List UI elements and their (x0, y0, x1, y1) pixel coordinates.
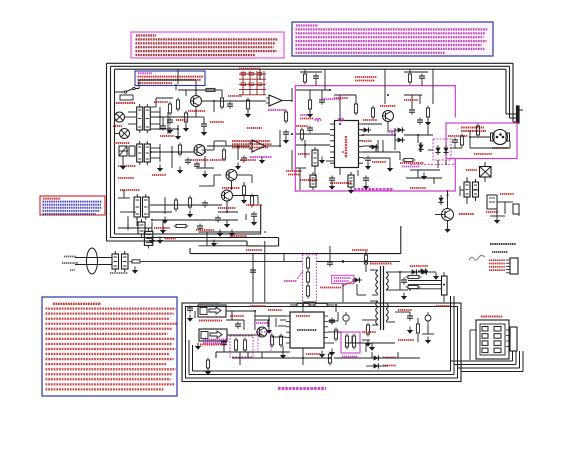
U3 right pin 15 (359, 157, 364, 159)
wire: rectifier wiring (395, 271, 409, 273)
capacitor C54 (329, 319, 335, 321)
wire: tn mesh d (363, 157, 390, 159)
wire: ul mesh m (233, 195, 259, 197)
resistor R34 (426, 108, 429, 117)
wire: bus drop b (384, 69, 386, 104)
U4 left pin 1 (286, 315, 290, 317)
text: ir emitter label (320, 287, 341, 289)
text: warning line 4 (136, 46, 274, 48)
ground gx2 (217, 233, 223, 237)
wire: pointer to D42 (342, 281, 354, 286)
wire: ul long run1 (151, 219, 238, 221)
capacitor C51 (187, 307, 193, 309)
text: diode labels (410, 265, 428, 267)
text: J3 label below (199, 320, 222, 322)
resistor Rt1 (308, 100, 311, 109)
text: blue note line4 (138, 82, 173, 84)
text: magenta pin label (322, 98, 342, 100)
text: principle line 13 (46, 363, 167, 365)
wire: lower frame inner bottom 3 (189, 374, 454, 376)
ground gl6 (369, 347, 375, 351)
wire mesh 3 (151, 204, 222, 206)
balun T14 (122, 254, 129, 269)
resistor Rl2 (416, 324, 419, 333)
text: J3 label above (199, 302, 220, 304)
text: agc note line1 (232, 140, 270, 142)
ground gd6 (160, 230, 166, 234)
text: warning line 5 (136, 50, 277, 52)
resistor R23 (222, 150, 225, 159)
capacitor Ctt1 (313, 75, 319, 77)
ground g14 (425, 122, 431, 126)
resistor Rmid1 (364, 255, 367, 264)
ground g9 (235, 166, 241, 170)
resistor R32 (371, 108, 374, 117)
text: mt lbl1 (474, 153, 492, 155)
text: ul lbl2 (176, 119, 188, 121)
text: motor name (492, 147, 508, 149)
wire: t1 links (128, 111, 136, 113)
resistor Rt2 (354, 104, 357, 113)
wire: feeds into FB1 (408, 280, 442, 282)
wire: top bus line 1 (outer frame top) (107, 62, 514, 64)
wire: lo mesh h (427, 326, 429, 334)
wire: tn mesh h (299, 168, 301, 190)
text: agc note line3 (232, 146, 268, 148)
text: lo lbl1 (230, 315, 244, 317)
resistor Rtt2 (408, 74, 411, 82)
capacitor Cm1 (452, 139, 458, 141)
box: tuner control section (magenta) (295, 86, 455, 191)
U3 right pin 13 (359, 145, 364, 147)
U3 left pin 4 (330, 140, 335, 142)
capacitor Cu1 (251, 213, 257, 215)
capacitor Ct1 (319, 99, 325, 101)
wire: magenta dashed link (410, 163, 455, 165)
ferrite antenna T5 (134, 197, 141, 217)
wire: tn mesh c (363, 145, 376, 147)
capacitor C21 (227, 103, 233, 105)
wire: right bus drop 2 (509, 66, 511, 118)
wire: link x284 (283, 254, 285, 262)
text: description line 6 (296, 44, 482, 46)
wire: lo long 2 (216, 351, 290, 353)
wire: u4 top wiring (290, 304, 297, 306)
transistor Q4 (222, 190, 233, 201)
text: principle line 8 (46, 338, 175, 340)
U4 right pin 12 (324, 342, 328, 344)
wire: lo mesh g (395, 311, 410, 313)
wire: d46 wiring (366, 357, 371, 359)
wire: lo mesh f (215, 352, 217, 358)
text: red note line 4 (43, 207, 103, 209)
wire: mt mesh (450, 147, 462, 149)
text: principle line 5 (46, 323, 177, 325)
ground gt4 (348, 190, 354, 194)
wire: bottom run (127, 216, 129, 230)
text: description title (296, 24, 318, 26)
resistor R24 (284, 112, 287, 121)
wire: j5 wiring (470, 329, 476, 331)
wire: osc pointer (297, 271, 303, 279)
resistor R31 (300, 130, 303, 139)
wire: motor wiring (470, 136, 490, 138)
resistor Rtt1 (303, 74, 306, 82)
wire: ul mesh j (214, 174, 221, 176)
text: J4 label below (200, 344, 226, 346)
inductor L2 (132, 260, 140, 263)
dashed box 2 (magenta) (230, 336, 253, 357)
wire: bus stub right 3 (454, 364, 516, 366)
capacitor C22 (241, 157, 247, 159)
jack J3 (line out) (198, 305, 226, 317)
resistor R12 (184, 113, 187, 122)
IF transformer T3 (137, 144, 143, 162)
text: U3 part number (red, vertical) (345, 136, 347, 158)
text: tn lbl4 (298, 153, 310, 155)
ground g1 (167, 130, 173, 134)
ground g18 (132, 270, 138, 274)
wire: left frame vertical 2 (110, 66, 112, 237)
wire: opamp2 wiring (207, 145, 250, 147)
ground g23 (401, 296, 407, 300)
text: tn lbl8 (362, 140, 372, 142)
wire: T15 terminals (370, 269, 378, 271)
wire: lo vert extra (215, 352, 217, 358)
text: ul lbl5 (152, 174, 166, 176)
text: varactor label (448, 135, 468, 137)
wire: top bus line 3 (115, 68, 507, 70)
resistor Rd1 (168, 104, 171, 113)
text: U3 pin labels left (300, 114, 312, 116)
wire: tuner right mesh (404, 134, 433, 136)
U4 right pin 10 (324, 331, 328, 333)
wire: lower frame inner bottom 4 (193, 370, 451, 372)
text: lamp label (113, 125, 122, 127)
ground g5 (162, 220, 168, 224)
regulator caps (345, 336, 348, 347)
resistor Rd4 (176, 224, 186, 227)
wire: bus drop e (259, 69, 261, 80)
wire: left frame vertical 1 (106, 63, 108, 241)
text: principle line 17 (46, 383, 175, 385)
ground g21 (329, 352, 335, 356)
capacitor Cd5 (201, 123, 207, 125)
text: red note line 6 (43, 213, 97, 215)
text: red label band (230, 235, 247, 237)
capacitor Cl4 (221, 341, 227, 343)
note box: description text (navy border) (292, 22, 493, 56)
diode D47 (remote) (371, 363, 381, 368)
text: tn lbl7 (296, 125, 308, 127)
capacitor C23 (283, 131, 289, 133)
capacitor C12 (185, 159, 191, 161)
note box: warning text (magenta border) (131, 32, 284, 58)
U3 right pin 12 (359, 140, 364, 142)
text: Q6 label (459, 213, 474, 215)
text: agc note line2 (232, 143, 272, 145)
inductor L6 (408, 275, 419, 278)
text: principle line 14 (46, 368, 176, 370)
wire: bus stub right 4 (451, 360, 513, 362)
note box: red-bordered note (left mid) (40, 196, 105, 215)
remote receiver box J5 (476, 320, 509, 359)
wire: frame bottom 3 (107, 240, 248, 242)
text: T3 label (118, 165, 136, 167)
electrolytic C52 (234, 340, 237, 350)
IF can crossing frame T16 (144, 231, 152, 245)
transistor Q3 (226, 170, 237, 181)
text: ul lbl4 (210, 121, 224, 123)
text: principle line 15 (46, 373, 173, 375)
electrolytic C53 (243, 340, 246, 350)
IF transformer T10 (348, 175, 354, 187)
U3 left pin 1 (330, 123, 335, 125)
text: var cap label (114, 142, 130, 144)
text: hand mark (469, 256, 485, 261)
dashed box 3 (magenta) (258, 332, 271, 352)
text: Q4 label (218, 207, 236, 209)
resistor R13 (206, 88, 215, 91)
wire: lo long 1 (255, 315, 286, 317)
wire: ul mesh h (119, 150, 128, 152)
jack J4 (mic) (199, 329, 227, 341)
ground gd3 (120, 166, 126, 170)
resistor R33 (404, 158, 413, 161)
wire: link x253 (252, 254, 254, 302)
wire: ul mesh i (150, 204, 168, 206)
wire: top bus line 2 (111, 65, 510, 67)
variable capacitor C-var1 (119, 146, 127, 156)
diode D41 (438, 195, 443, 205)
oscillator dashed box (magenta) (302, 254, 304, 302)
text: tuner box label 调谐机芯控制电路 (354, 188, 393, 191)
U3 left pin 3 (330, 134, 335, 136)
resistor R52 (279, 336, 282, 345)
text: misc red c (288, 174, 300, 176)
wire: rc mesh a (496, 209, 498, 216)
ground g16 (329, 186, 335, 190)
diode D34 (369, 144, 379, 149)
wire: ul mesh n (123, 190, 125, 198)
text: antenna label (64, 256, 76, 258)
ground gd1 (175, 136, 181, 140)
IF transformer T8 (312, 150, 318, 166)
diode D31 (361, 127, 371, 132)
wire: mid verticals (279, 130, 281, 146)
text: rc lbl1 (500, 193, 514, 195)
wire: frame bottom 5 (190, 253, 401, 255)
wire: right col mesh (484, 162, 486, 166)
wire: lo mesh a (231, 311, 233, 320)
remote rx inner frame (480, 324, 505, 355)
text: U4 red label (296, 315, 310, 317)
text: red note line 3 (43, 204, 102, 206)
oscillator coil L5 (306, 286, 309, 296)
diode D44 (409, 269, 419, 274)
text: tn lbl1 (334, 97, 348, 99)
resistor R16 (188, 198, 191, 207)
diode D32 (395, 127, 405, 132)
text: description line 7 (296, 48, 485, 50)
diode D45 (419, 269, 429, 274)
diode D46 (remote) (371, 355, 381, 360)
ground gx1 (157, 240, 163, 244)
U3 right pin 11 (359, 134, 364, 136)
text: red note line 2 (43, 201, 103, 203)
U3 right pin 16 (359, 162, 364, 164)
wire: bus ends into connector (506, 113, 516, 115)
wire: ul mesh e (202, 149, 214, 151)
varactor box (dashed magenta) (433, 139, 451, 160)
ground gm1 (494, 220, 500, 224)
resistor Rm1 (460, 136, 463, 145)
text: J2 title (492, 251, 508, 253)
text: lo lbl4 (306, 353, 320, 355)
text: lo lbl3 (268, 309, 282, 311)
text: description line 4 (296, 36, 484, 38)
wire: fb1 to bus (443, 295, 445, 302)
wire: bus drop a (324, 69, 326, 90)
ground gd2 (202, 174, 208, 178)
IC U3 (tuner controller) (335, 121, 359, 168)
resistor network RN1 (red ladder) (239, 73, 266, 75)
text: warning line 6 (136, 54, 256, 56)
unit box B1 (LED/sensor) (487, 195, 497, 209)
wire: frame bottom 4 (247, 245, 279, 247)
wire: tt wiring2 (404, 71, 428, 73)
ground g19 (187, 318, 193, 322)
U4 right pin 8 (324, 320, 328, 322)
text: lo lbl6 (398, 339, 414, 341)
text: warning line 2 (136, 38, 278, 40)
ground g22 (365, 343, 371, 347)
text: principle line 10 (46, 348, 176, 350)
op-amp U2A (269, 95, 282, 106)
note box: small magenta box (osc note) (332, 275, 354, 283)
transformer T15 (power) core (380, 266, 382, 330)
text: principle line 7 (46, 333, 168, 335)
wire: frame bottom 1 (115, 233, 261, 235)
text: tn lbl6 (410, 187, 426, 189)
oscillator coil L4 (306, 272, 309, 282)
wire: bus stub right 1 (461, 371, 523, 373)
ground gt2 (387, 168, 393, 172)
text: label right of T16 (165, 238, 176, 240)
capacitor C34 (329, 177, 335, 179)
varactor D37 (443, 145, 448, 155)
lamp L2 (dial lamp) (120, 129, 130, 139)
ground gl5 (280, 355, 286, 359)
U4 right pin 7 (324, 315, 328, 317)
text: Q3 label (222, 187, 240, 189)
wire: lo mesh c (280, 319, 286, 321)
diode D43 (418, 268, 428, 273)
wire: tn mesh a (296, 89, 330, 91)
resistor R22 (246, 100, 249, 109)
ground gl2 (425, 340, 431, 344)
text: description line 8 (296, 52, 446, 54)
U3 left pin 5 (330, 145, 335, 147)
transistor Q1 (191, 96, 202, 107)
ground g17 (444, 229, 450, 233)
loop antenna E1 (87, 248, 98, 274)
ground gl1 (407, 330, 413, 334)
motor M1 (493, 130, 508, 145)
wire: rc mesh b (460, 189, 464, 191)
text: Q1 label (188, 110, 205, 112)
wire: bus drop d (177, 69, 179, 84)
capacitor C33 (417, 119, 423, 121)
ground g15 (421, 176, 427, 180)
resistor Rd3 (250, 196, 253, 205)
text: blue note line3 (138, 79, 202, 81)
U4 left pin 4 (286, 331, 290, 333)
diode D42 (IR emitter) (352, 277, 362, 282)
ground g6 (187, 214, 193, 218)
text: regulator label (342, 356, 358, 358)
wire: lo long 4 (334, 357, 420, 359)
wire: ul mesh c (151, 106, 156, 108)
U4 right pin 11 (324, 337, 328, 339)
wire: tn mesh i (339, 168, 341, 175)
text: balun labels (110, 272, 128, 274)
frame: lower section rect 2 (186, 307, 458, 379)
IF transformer T7 (138, 222, 145, 234)
transistor Q7 (257, 327, 267, 337)
wire: lo mesh b (255, 319, 268, 321)
wire: bus drop c (432, 69, 434, 104)
text: J5 label (481, 316, 503, 318)
connector J2 (8-pin) (510, 258, 518, 274)
wire: right bus drop 3 (505, 69, 507, 114)
ground gl4 (266, 330, 272, 334)
wire: bus stub right 2 (458, 367, 520, 369)
note box: big principle text (blue border, bottom left) (42, 297, 177, 396)
wire: link y302 gap (303, 301, 317, 303)
capacitor Ctt2 (419, 75, 425, 77)
text: warning title (136, 34, 156, 36)
text: osc label (284, 280, 297, 282)
resistor R51 (270, 336, 273, 345)
text: tn lbl5 (372, 161, 386, 163)
text: switch label (116, 102, 135, 104)
frame: lower section rect 1 (182, 303, 461, 382)
text: red cluster tuner (400, 162, 424, 164)
text: B1 label (486, 211, 498, 213)
ground gl3 (205, 372, 211, 376)
wire: tuner mid mesh (363, 123, 382, 125)
capacitor Cl1 (235, 323, 241, 325)
text: ul lbl7 (246, 204, 262, 206)
text: Q2 label (191, 159, 209, 161)
capacitor C41 (327, 261, 333, 263)
text: J2 pin labels (489, 259, 505, 261)
resistor R21 (220, 98, 223, 107)
text: X1 label (466, 169, 477, 171)
box: motor section (magenta) (446, 123, 517, 159)
text: ul lbl1 (154, 101, 168, 103)
text: motor label (461, 127, 484, 129)
waveform icon w1 (magenta) (315, 119, 321, 122)
wire: antenna line continues (316, 260, 400, 262)
text: lo lbl5 (398, 309, 412, 311)
wire: lower mesh 2 (335, 305, 337, 312)
wire: antenna line to osc (143, 260, 303, 262)
ground g7 (149, 240, 155, 244)
wire: ul mesh d (151, 128, 178, 130)
resistor R15 (174, 200, 177, 209)
